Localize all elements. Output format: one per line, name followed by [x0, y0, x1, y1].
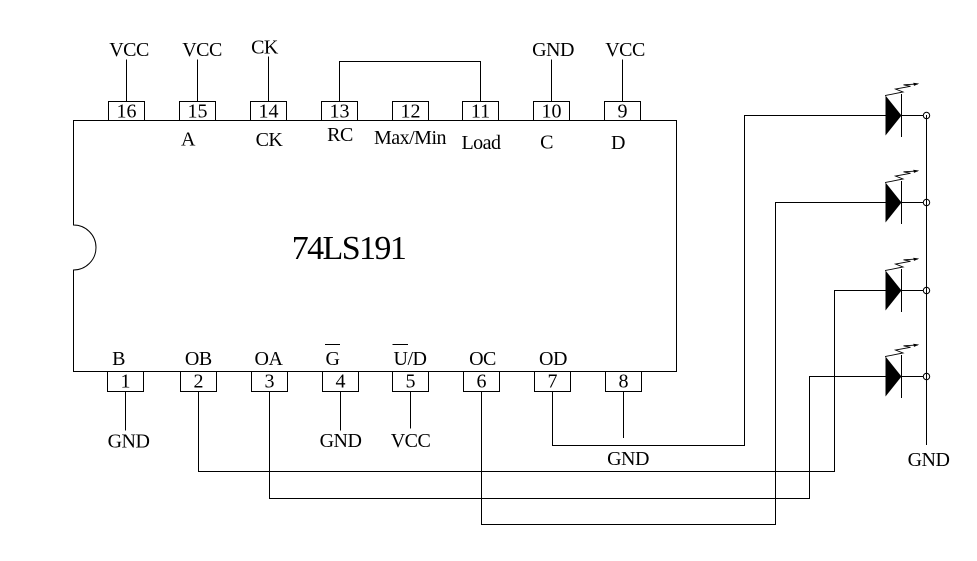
svg-text:3: 3 — [265, 371, 275, 393]
wire VCC to pin 16 — [126, 60, 128, 102]
wire GND to pin 10 — [551, 60, 553, 102]
wire pin 8 stub — [623, 392, 625, 438]
svg-text:11: 11 — [471, 101, 490, 123]
svg-text:16: 16 — [117, 101, 137, 123]
pin 15 — [180, 101, 216, 123]
pin 6 — [464, 371, 500, 393]
node LED D2 cathode — [923, 199, 929, 205]
pin 16 — [109, 101, 145, 123]
wire pin 3 OA to LED D4 anode — [270, 377, 887, 499]
svg-text:13: 13 — [330, 101, 350, 123]
GND bus — [926, 116, 928, 445]
node LED D3 cathode — [923, 287, 929, 293]
svg-text:9: 9 — [618, 101, 628, 123]
svg-text:4: 4 — [336, 371, 346, 393]
svg-text:1: 1 — [121, 371, 131, 393]
pin label U-bar/D — [393, 345, 427, 371]
pin 9 — [605, 101, 641, 123]
svg-text:G: G — [326, 348, 340, 370]
svg-text:A: A — [181, 129, 196, 151]
pin 7 — [535, 371, 571, 393]
svg-text:GND: GND — [320, 430, 362, 452]
wire LED D1 cathode to node — [902, 115, 924, 117]
svg-text:OC: OC — [469, 348, 496, 370]
pin label G-bar — [326, 345, 340, 371]
svg-text:CK: CK — [256, 129, 284, 151]
svg-text:15: 15 — [188, 101, 208, 123]
pin 5 — [393, 371, 429, 393]
svg-text:GND: GND — [607, 448, 649, 470]
svg-text:GND: GND — [908, 449, 950, 471]
pin 13 — [322, 101, 358, 123]
svg-text:VCC: VCC — [109, 39, 149, 61]
wire LED D2 cathode to node — [902, 202, 924, 204]
wire pin 13 RC to pin 11 Load — [340, 62, 481, 102]
svg-text:VCC: VCC — [391, 430, 431, 452]
IC U1 74LS191 body — [74, 121, 677, 372]
wire pin 5 to VCC — [410, 392, 412, 429]
svg-text:14: 14 — [259, 101, 279, 123]
pin 8 — [606, 371, 642, 393]
svg-text:OA: OA — [255, 348, 284, 370]
svg-text:Max/Min: Max/Min — [374, 127, 447, 149]
svg-text:U/D: U/D — [394, 348, 427, 370]
wire pin 4 to GND — [340, 392, 342, 431]
pin 2 — [181, 371, 217, 393]
svg-text:C: C — [540, 132, 553, 154]
svg-text:6: 6 — [477, 371, 487, 393]
svg-text:OB: OB — [185, 348, 212, 370]
svg-text:8: 8 — [619, 371, 629, 393]
svg-text:VCC: VCC — [182, 39, 222, 61]
svg-text:GND: GND — [108, 431, 150, 453]
wire CK to pin 14 — [268, 57, 270, 102]
svg-text:5: 5 — [406, 371, 416, 393]
svg-text:D: D — [611, 132, 625, 154]
svg-text:Load: Load — [461, 132, 501, 154]
node LED D1 cathode — [923, 112, 929, 118]
wire pin 1 to GND — [125, 392, 127, 431]
svg-text:CK: CK — [251, 37, 279, 59]
pin 4 — [323, 371, 359, 393]
LED D4 — [886, 344, 920, 398]
svg-text:RC: RC — [327, 124, 353, 146]
LED D1 — [886, 83, 920, 137]
LED D3 — [886, 258, 920, 312]
wire LED D4 cathode to node — [902, 376, 924, 378]
wire VCC to pin 15 — [197, 60, 199, 102]
svg-text:7: 7 — [548, 371, 558, 393]
svg-text:12: 12 — [401, 101, 421, 123]
LED D2 — [886, 170, 920, 224]
pin 1 — [108, 371, 144, 393]
svg-text:VCC: VCC — [605, 39, 645, 61]
pin 3 — [252, 371, 288, 393]
pin 11 — [463, 101, 499, 123]
pin 12 — [393, 101, 429, 123]
node LED D4 cathode — [923, 373, 929, 379]
svg-text:10: 10 — [542, 101, 562, 123]
svg-text:B: B — [112, 348, 125, 370]
svg-text:74LS191: 74LS191 — [292, 230, 405, 267]
pin 10 — [534, 101, 570, 123]
wire LED D3 cathode to node — [902, 290, 924, 292]
wire pin 7 OD to LED D1 anode — [553, 116, 887, 446]
wire pin 2 OB to LED D3 anode — [199, 291, 887, 472]
wire pin 6 OC to LED D2 anode — [482, 203, 887, 525]
svg-text:OD: OD — [539, 348, 567, 370]
wire VCC to pin 9 — [622, 60, 624, 102]
svg-text:GND: GND — [532, 39, 574, 61]
svg-text:2: 2 — [194, 371, 204, 393]
pin 14 — [251, 101, 287, 123]
